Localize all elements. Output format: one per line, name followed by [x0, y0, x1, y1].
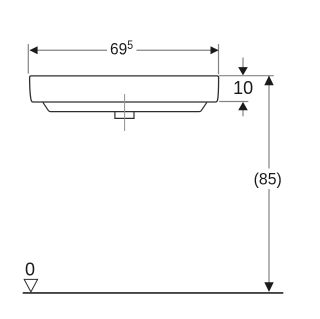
svg-text:10: 10 — [233, 78, 253, 98]
svg-text:0: 0 — [25, 259, 35, 279]
svg-text:(85): (85) — [254, 170, 282, 189]
svg-text:695: 695 — [110, 40, 133, 59]
